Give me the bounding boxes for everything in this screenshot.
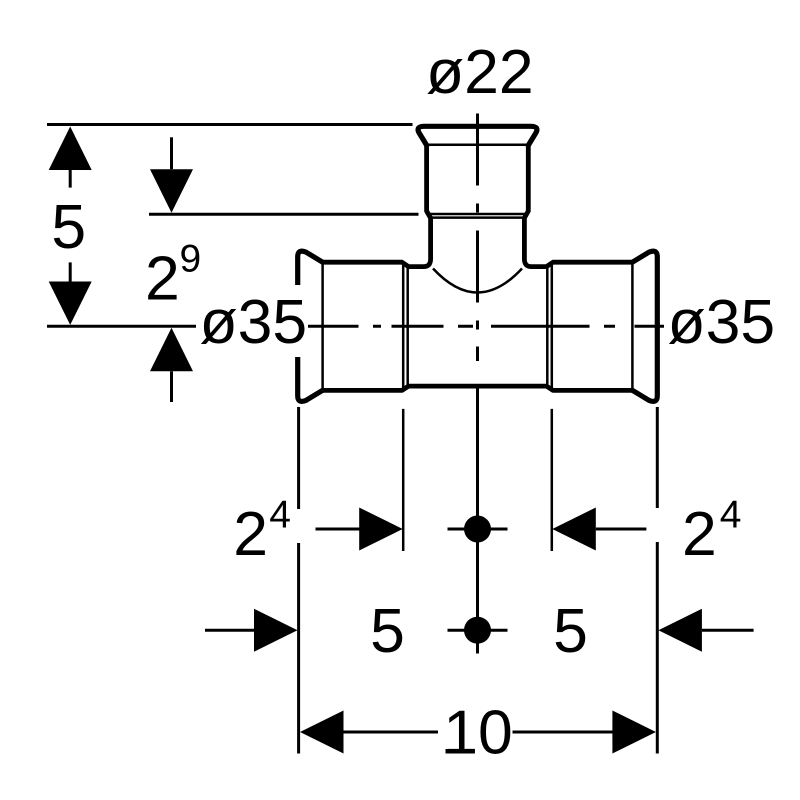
branch bead bottom thin line — [428, 144, 527, 147]
row2 center dot with stubs — [448, 629, 508, 632]
bottom extension line: left fitting end — [297, 407, 300, 509]
tee body: left socket top edge, step, middle top edge, branch left wall — [323, 146, 431, 267]
svg-text:4: 4 — [269, 494, 291, 537]
centerline horizontal solid left segment — [47, 325, 198, 328]
left socket end line (outer) — [402, 263, 405, 390]
svg-text:ø22: ø22 — [426, 37, 534, 107]
dim 2.4 right: left-pointing arrow and line — [552, 508, 596, 551]
left bead inner thin line — [321, 263, 324, 390]
svg-text:4: 4 — [720, 494, 742, 537]
bottom extension line: right fitting end — [656, 407, 659, 508]
dim 5 vertical: down arrow — [49, 282, 92, 325]
left socket end line (inner) — [406, 268, 409, 386]
svg-text:2: 2 — [145, 244, 180, 314]
svg-text:9: 9 — [180, 238, 202, 281]
dim 2.9 vertical: up arrow onto centerline — [150, 328, 193, 372]
dim 5 left (row2): line and right-pointing arrow at left fitting end — [205, 629, 255, 632]
svg-text:10: 10 — [443, 698, 513, 768]
bottom extension line: left socket depth — [402, 409, 405, 551]
dim 2.9 vertical: lower stem — [170, 371, 173, 402]
svg-text:2: 2 — [682, 499, 717, 569]
tee body: branch right wall, middle top edge, step, right socket top edge — [524, 146, 632, 267]
extension line: top of branch (ref for dim 5) — [47, 123, 413, 126]
dim 2.9 vertical: upper stem — [170, 137, 173, 169]
centerline vertical dash-dot of branch — [476, 114, 479, 654]
dim 2.9 vertical: down arrow onto socket depth line — [150, 169, 193, 213]
svg-text:ø35: ø35 — [668, 287, 776, 357]
dim 5 vertical: up arrow — [49, 127, 92, 171]
label ø35 left white halo — [196, 285, 308, 357]
svg-text:5: 5 — [51, 192, 86, 262]
svg-text:5: 5 — [553, 596, 588, 666]
label ø22 white halo — [423, 45, 537, 98]
svg-text:2: 2 — [233, 499, 268, 569]
right bead inner thin line — [631, 263, 634, 390]
svg-text:ø35: ø35 — [200, 287, 308, 357]
dim 2.4 left: line and right-pointing arrow — [316, 528, 362, 531]
svg-text:5: 5 — [370, 596, 405, 666]
dim 5 right (row2): left-pointing arrow and line at right fitting end — [658, 609, 702, 652]
foot serif of digit 1 in 10 — [446, 749, 474, 754]
branch socket depth thin line (upper) — [429, 213, 526, 216]
branch socket depth thin line (lower) — [431, 216, 524, 219]
bottom extension line: right socket depth — [551, 409, 554, 551]
right end bead of main run — [632, 251, 657, 401]
row1 center dot with stubs — [448, 528, 508, 531]
left end bead of main run — [298, 251, 323, 401]
dim 5 vertical: upper stem — [69, 170, 72, 188]
label ø35 right white halo — [664, 296, 776, 348]
extension line: branch socket depth (ref for dim 2.9) — [149, 213, 419, 216]
label 5 (top left dim) white halo — [48, 201, 90, 253]
right socket end line (inner) — [546, 268, 549, 386]
label 10 (row3) white halo — [439, 707, 512, 757]
dim 10 (row3): left-pointing arrow, line, right-pointing arrow — [300, 711, 344, 754]
right socket end line (outer) — [551, 263, 554, 390]
saddle arc inside middle section — [433, 269, 522, 293]
branch top bead (press end O-ring bulge) — [418, 126, 537, 145]
centerline horizontal dash-dot through fitting — [307, 325, 668, 328]
dim 5 vertical: lower stem — [69, 262, 72, 281]
main run bottom edge (left socket, middle, right socket) — [323, 386, 633, 390]
